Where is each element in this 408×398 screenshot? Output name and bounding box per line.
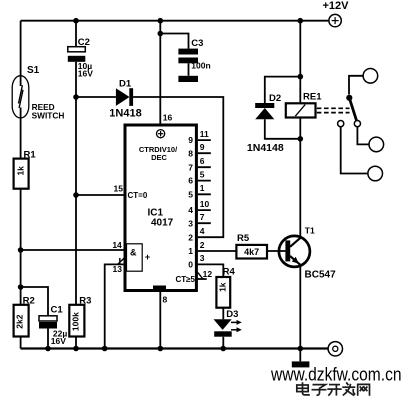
wire D2 branch [265, 77, 301, 139]
node O: bottom rail at D3 [220, 346, 226, 352]
wire switch right contact to middle terminal [357, 127, 369, 145]
node C: top rail at relay branch [298, 18, 304, 24]
svg-text:1: 1 [188, 246, 193, 256]
svg-text:T1: T1 [305, 226, 315, 236]
node H: left wire at C1 [18, 284, 24, 290]
svg-text:R2: R2 [23, 295, 35, 306]
capacitor C2 [68, 37, 93, 79]
svg-text:5: 5 [188, 189, 193, 199]
svg-text:2: 2 [200, 240, 205, 250]
capacitor C1 [39, 305, 67, 347]
reed switch S1 [12, 65, 64, 121]
IC1 pin 16 marker [157, 113, 173, 138]
svg-text:1k: 1k [218, 282, 228, 292]
svg-text:8: 8 [163, 295, 168, 305]
svg-text:CT=0: CT=0 [128, 191, 148, 200]
wire switch top terminal [349, 76, 363, 95]
wire pin3 to R4 to D3 [198, 264, 224, 348]
wire pin13 [105, 264, 124, 348]
svg-text:1: 1 [200, 183, 205, 193]
IC1 pin 12 CT>=5 [175, 269, 212, 284]
svg-text:D2: D2 [269, 93, 281, 104]
node B: top rail at pin16 [158, 18, 164, 24]
node G: left wire at pin14 [18, 247, 24, 253]
svg-text:3: 3 [188, 218, 193, 228]
counter IC1 4017 body [125, 125, 196, 291]
watermark chinese glyph 开 [327, 385, 341, 396]
svg-text:BC547: BC547 [305, 269, 337, 280]
svg-text:R1: R1 [24, 149, 37, 160]
node A: top rail at C2 [73, 18, 79, 24]
diode D2 [247, 93, 284, 154]
svg-text:SWITCH: SWITCH [32, 111, 65, 121]
wire bottom rail [21, 347, 328, 349]
node P: bottom rail at emitter [298, 346, 304, 352]
switch SW (relay contacts) [338, 69, 384, 181]
wire C3 branch [160, 34, 188, 76]
svg-text:4: 4 [188, 205, 193, 215]
node L: bottom rail at R3 [73, 346, 79, 352]
node J: relay bottom tee [298, 136, 304, 142]
svg-text:C1: C1 [51, 305, 64, 316]
node M: bottom rail at pin13 line [102, 346, 108, 352]
resistor R2 [14, 295, 35, 336]
svg-text:R5: R5 [237, 233, 250, 244]
svg-text:2k2: 2k2 [15, 314, 25, 328]
svg-text:11: 11 [200, 129, 209, 139]
watermark chinese glyph 发 [342, 382, 355, 395]
svg-text:DEC: DEC [151, 153, 167, 162]
IC1 pin 15 label CT=0 [114, 184, 148, 201]
svg-text:2: 2 [188, 232, 193, 242]
wire top +12V rail [21, 20, 329, 22]
svg-text:D1: D1 [119, 79, 132, 90]
wire IC output stubs [198, 140, 211, 223]
svg-text:7: 7 [200, 212, 205, 222]
wire reset line vertical x76 [75, 97, 77, 349]
relay RE1 [286, 92, 322, 118]
resistor R5 [236, 233, 267, 259]
resistor R3 [69, 295, 91, 336]
wire right main +12V to relay to T1 [299, 21, 301, 349]
svg-text:1k: 1k [16, 166, 26, 176]
svg-text:0: 0 [188, 260, 193, 270]
svg-text:+12V: +12V [323, 0, 350, 12]
watermark chinese glyph 网 [358, 384, 370, 395]
IC1 pin 8 marker [153, 286, 168, 305]
svg-text:14: 14 [112, 240, 122, 250]
node K: bottom rail at C1 [45, 346, 51, 352]
svg-text:5: 5 [200, 169, 205, 179]
watermark chinese glyph 子 [312, 385, 327, 396]
svg-text:12: 12 [203, 269, 213, 279]
svg-text:RE1: RE1 [303, 92, 322, 103]
svg-text:C3: C3 [191, 38, 203, 49]
resistor R1 [14, 149, 37, 188]
node N: bottom rail at pin8 [158, 346, 164, 352]
IC1 clock AND block [112, 240, 150, 274]
svg-text:www.dzkfw.com.cn: www.dzkfw.com.cn [270, 365, 401, 385]
wire pin14 [21, 249, 124, 251]
node E: reset line at D1 [73, 94, 79, 100]
wire D1 reset-to-pin4 [76, 97, 223, 237]
svg-text:D3: D3 [226, 309, 238, 320]
svg-text:R3: R3 [79, 295, 91, 306]
IC1 pin 13 edge marker [117, 258, 124, 265]
node F: reset line at pin15 [73, 192, 79, 198]
wire left vertical (S1/R1/R2 branch) [20, 21, 22, 349]
relay actuation dashed link [317, 108, 350, 112]
svg-text:100k: 100k [71, 312, 81, 331]
svg-text:4: 4 [200, 226, 205, 236]
svg-text:S1: S1 [27, 65, 40, 76]
svg-text:9: 9 [188, 135, 193, 145]
wire pin2 to R5 to base [198, 250, 286, 252]
svg-text:6: 6 [200, 156, 205, 166]
LED D3 [214, 309, 242, 336]
svg-text:1N4148: 1N4148 [247, 142, 284, 154]
svg-text:1N418: 1N418 [109, 107, 141, 119]
IC1 output pin numbers (external) [200, 129, 210, 263]
IC1 output pin numbers (internal) [188, 135, 193, 269]
wire pin16 vdd [159, 21, 161, 124]
svg-text:R4: R4 [223, 267, 236, 278]
wire C1 branch [21, 287, 48, 349]
capacitor C3 [178, 38, 210, 71]
svg-text:16: 16 [163, 113, 173, 123]
svg-text:16V: 16V [51, 336, 66, 346]
svg-text:CT≥5: CT≥5 [175, 275, 195, 284]
svg-text:7: 7 [188, 162, 193, 172]
svg-text:9: 9 [200, 142, 205, 152]
svg-text:3: 3 [200, 253, 205, 263]
wire pin12 stub [193, 278, 207, 280]
svg-text:8: 8 [188, 148, 193, 158]
ground (C3) [178, 76, 198, 82]
svg-text:+: + [145, 252, 150, 262]
wire pin8 ground [159, 292, 161, 349]
0V output terminal [328, 342, 342, 356]
diode D1 [109, 79, 141, 120]
svg-text:16V: 16V [78, 69, 93, 79]
ground (bottom right) [292, 361, 310, 367]
svg-text:15: 15 [114, 184, 124, 194]
svg-text:13: 13 [113, 264, 123, 274]
svg-text:4k7: 4k7 [244, 247, 259, 257]
svg-text:4017: 4017 [151, 218, 174, 229]
watermark chinese glyph 电 [297, 382, 310, 395]
node D: C3 tee [158, 31, 164, 37]
wire pin15 [76, 194, 124, 196]
svg-text:100n: 100n [191, 61, 210, 71]
resistor R4 [216, 267, 235, 308]
svg-text:6: 6 [188, 176, 193, 186]
wire ground stub bottom right [299, 349, 301, 362]
transistor T1 [279, 226, 336, 281]
wire C2 branch [75, 21, 77, 97]
svg-text:C2: C2 [78, 37, 90, 48]
+12V supply terminal [323, 0, 350, 27]
wire switch left contact to bottom terminal [341, 127, 368, 174]
svg-text:10: 10 [200, 199, 210, 209]
node I: relay top tee [298, 74, 304, 80]
svg-text:&: & [130, 247, 137, 257]
